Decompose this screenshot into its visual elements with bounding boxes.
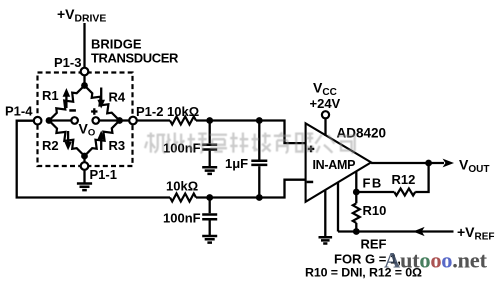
ground amp [319,237,333,243]
svg-text:R3: R3 [109,138,126,153]
svg-text:R4: R4 [109,90,126,105]
resistor R3 [85,121,120,157]
resistor R1 [49,86,85,121]
svg-text:BRIDGE: BRIDGE [91,37,142,52]
node bridge left [46,117,53,124]
resistor 10k top [170,117,196,125]
terminal Vo+ circle [93,117,100,124]
terminal P1-4 circle [34,117,42,125]
resistor R2 [49,121,85,157]
arrow from +VREF [413,227,425,236]
wire output [371,162,444,164]
svg-text:R12: R12 [392,172,416,187]
svg-text:R1: R1 [42,88,59,103]
node bottom filter [206,194,213,201]
wire 10k top to amp corner [196,119,286,121]
ground 100nF bottom [202,236,217,243]
svg-text:AD8420: AD8420 [337,126,387,141]
wire FB pin [355,171,357,192]
arrow to VOUT [443,159,454,168]
svg-text:+24V: +24V [310,96,341,111]
wire top corner into +in [285,120,306,144]
wire left node to Vo- [49,119,71,121]
svg-text:TRANSDUCER: TRANSDUCER [91,51,179,66]
terminal VCC circle [322,111,329,118]
wire Vo+ to right node [99,119,119,121]
ground bridge [77,184,92,191]
capacitor 1uF [258,121,260,160]
wire P1-2 to 10k top [137,119,170,121]
plus input sign [308,146,315,153]
svg-text:R10: R10 [363,203,387,218]
wire R12 to output node [415,163,428,192]
bridge dashed box [38,73,133,167]
node bridge bottom [81,153,88,160]
svg-text:+VDRIVE: +VDRIVE [57,6,106,25]
svg-text:10kΩ: 10kΩ [166,179,198,194]
svg-text:FB: FB [363,176,383,191]
node FB [353,189,360,196]
wire right node to P1-2 [120,119,130,121]
node output [425,160,432,167]
svg-text:10kΩ: 10kΩ [167,104,199,119]
wire bottom corner into -in [285,180,306,199]
wire P1-1 to ground [83,170,85,183]
ground 100nF top [202,167,217,174]
op-amp AD8420 triangle [306,123,372,202]
capacitor 100nF bottom [209,198,211,214]
terminal P1-3 circle [81,68,89,76]
wire VCC to amp [324,118,326,136]
svg-text:IN-AMP: IN-AMP [313,158,356,172]
wire P1-4 to bottom rail [17,121,170,198]
terminal Vo- circle [71,117,78,124]
svg-text:Autooo.net: Autooo.net [384,248,487,273]
terminal P1-1 circle [81,162,89,170]
wire 10k bottom to amp corner [196,196,286,198]
node REF [353,228,360,235]
svg-text:100nF: 100nF [163,211,201,226]
node bridge right [116,117,123,124]
node top filter [206,117,213,124]
capacitor 100nF top [209,121,211,144]
svg-text:1μF: 1μF [225,156,248,171]
svg-text:P1-2: P1-2 [136,104,163,119]
wire amp to ground [324,190,326,237]
wire bottom node to P1-1 [83,156,85,162]
resistor R12 [394,189,415,196]
resistor R4 [85,86,120,121]
svg-text:R2: R2 [42,138,59,153]
node top of bridge [81,82,88,89]
svg-text:+VREF: +VREF [457,224,495,243]
minus input sign [307,181,314,184]
svg-text:P1-3: P1-3 [54,55,81,70]
resistor 10k bottom [170,194,196,202]
wire REF pin down [337,182,339,232]
node 1uF bottom [256,194,263,201]
wire REF line [338,230,454,232]
svg-text:VOUT: VOUT [459,157,489,176]
resistor R10 [353,203,360,223]
terminal P1-2 circle [129,117,137,125]
svg-text:REF: REF [361,237,387,252]
plus sign bridge [91,108,97,114]
wire +VDRIVE to P1-3 [83,23,85,68]
svg-text:P1-1: P1-1 [90,167,117,182]
wire FB to R12 [356,191,394,193]
svg-text:P1-4: P1-4 [5,104,33,119]
node 1uF top [256,117,263,124]
wire P1-3 to top node [83,75,85,85]
minus sign bridge [69,109,76,112]
